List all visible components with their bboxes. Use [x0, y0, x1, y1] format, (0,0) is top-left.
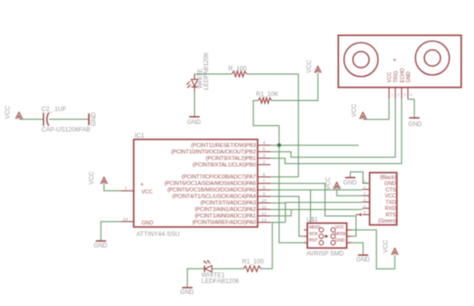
svg-text:VCC: VCC — [89, 171, 96, 185]
svg-text:3: 3 — [364, 192, 366, 196]
svg-text:6: 6 — [263, 172, 266, 177]
wire C2 to GND — [49, 118, 89, 120]
sonar right transducer — [415, 41, 449, 75]
svg-text:7: 7 — [263, 178, 266, 183]
IC1 pin 10 stub — [258, 202, 271, 204]
svg-text:RST: RST — [309, 237, 318, 242]
svg-text:10: 10 — [261, 198, 267, 203]
IC1 pin 2 stub — [258, 164, 271, 166]
sonar pin 1 stub — [388, 87, 390, 98]
svg-text:VCC: VCC — [385, 194, 396, 200]
svg-text:14: 14 — [123, 216, 129, 221]
svg-text:C2_.1UF: C2_.1UF — [42, 106, 67, 113]
wire PA7 row — [271, 176, 299, 178]
ground (ISP) — [358, 254, 368, 256]
connector U$1 AVRISP-SMD body — [307, 223, 346, 248]
wire ISP VCC to supply — [352, 230, 395, 269]
ISP pad circles — [319, 234, 323, 238]
FTDI pin 6 stub — [362, 214, 369, 216]
ISP left pin stub — [304, 242, 307, 244]
wire PA3 row — [271, 202, 286, 204]
wire FTDI GND to ground — [350, 172, 369, 183]
wire VCC to pin 1 — [104, 184, 121, 191]
supply VCC (sonar) — [360, 112, 367, 119]
svg-text:TXD: TXD — [385, 200, 396, 206]
svg-text:GND: GND — [180, 289, 194, 296]
IC1 pin 12 stub — [258, 215, 271, 217]
ISP right pin stub — [347, 235, 352, 237]
capacitor C2 — [43, 113, 45, 126]
svg-text:GND: GND — [142, 221, 154, 227]
sonar pin 3 stub — [401, 87, 403, 98]
svg-text:GND: GND — [343, 180, 357, 187]
wire PA2 row to FTDI RXD — [271, 209, 363, 211]
wire GND to LED WHITE1 — [187, 269, 204, 287]
svg-text:LEDFAB1206: LEDFAB1206 — [203, 52, 210, 90]
ISP pin1 mark — [325, 235, 328, 238]
IC1 pin 11 stub — [258, 208, 271, 210]
svg-text:12: 12 — [261, 211, 267, 216]
svg-text:GND: GND — [91, 112, 98, 126]
svg-text:(PCINT4/T1/SCL/USCK/ADC4)PA4: (PCINT4/T1/SCL/USCK/ADC4)PA4 — [172, 194, 256, 200]
svg-text:VCC: VCC — [142, 189, 153, 195]
wire LED to GND — [194, 91, 196, 116]
connector FTDI header body — [370, 173, 397, 225]
wire PA4 row to ISP SCK — [271, 196, 304, 236]
svg-text:(Green): (Green) — [378, 219, 396, 225]
IC1 pin 3 stub — [258, 157, 271, 159]
svg-text:(PCINT7/ICP/OC0B/ADC7)PA7: (PCINT7/ICP/OC0B/ADC7)PA7 — [182, 175, 256, 181]
ISP right pin stub — [347, 229, 352, 231]
resistor R1_10K — [258, 98, 271, 104]
svg-text:GND: GND — [94, 243, 108, 250]
svg-text:MOSI: MOSI — [335, 231, 346, 236]
svg-text:(Black): (Black) — [380, 175, 396, 181]
wire TRIG net — [271, 99, 396, 158]
LED WHITE (top) — [191, 79, 197, 86]
LED WHITE1 emission arrows — [204, 261, 207, 264]
ground (below LED) — [189, 116, 199, 118]
resistor R_100 — [232, 71, 247, 77]
svg-text:VCC: VCC — [383, 239, 390, 253]
IC IC1 ATTINY44-SSU body — [134, 139, 258, 227]
svg-text:(PCINT8/XTAL1/CLKI)PB0: (PCINT8/XTAL1/CLKI)PB0 — [193, 163, 256, 169]
svg-text:GND: GND — [406, 71, 412, 83]
ground (FTDI) — [345, 177, 355, 179]
FTDI pin 3 stub — [362, 195, 369, 197]
ISP right pin stub — [347, 242, 352, 244]
wire sonar VCC — [363, 99, 389, 120]
wire PA7 riser — [297, 74, 299, 177]
wire pin 14 to GND — [101, 222, 121, 241]
svg-text:2: 2 — [397, 93, 399, 97]
LED WHITE1 — [205, 266, 212, 273]
svg-text:1: 1 — [364, 179, 366, 183]
svg-text:1: 1 — [391, 93, 393, 97]
wire PA0 row — [271, 221, 286, 223]
svg-text:3: 3 — [263, 153, 266, 158]
svg-text:4: 4 — [410, 93, 412, 97]
FTDI pin 5 stub — [362, 207, 369, 209]
svg-text:2: 2 — [364, 185, 366, 189]
supply VCC (FTDI) — [333, 182, 340, 189]
svg-text:GND: GND — [187, 119, 201, 126]
FTDI pin 2 stub — [362, 188, 369, 190]
wire PA1 jog — [271, 210, 292, 216]
wire TXD net — [285, 202, 362, 222]
ISP left pin stub — [304, 235, 307, 237]
svg-text:VCC: VCC — [5, 105, 12, 119]
svg-text:VCC: VCC — [325, 176, 332, 190]
resistor R1_100 — [243, 266, 261, 272]
svg-text:13: 13 — [261, 217, 267, 222]
sonar pin 4 stub — [407, 87, 409, 98]
svg-text:4: 4 — [263, 140, 266, 145]
svg-text:8: 8 — [263, 185, 266, 190]
FTDI pin 1 stub — [362, 182, 369, 184]
wire PA5 row to FTDI CTS — [271, 189, 363, 191]
IC1 pin 7 stub — [258, 182, 271, 184]
svg-text:1: 1 — [125, 185, 128, 190]
ground (right of C2) — [88, 113, 90, 125]
IC1 pin 8 stub — [258, 189, 271, 191]
IC1 pin 14 stub — [121, 221, 134, 223]
wire LED to R1_100 — [212, 268, 244, 270]
svg-text:GND: GND — [384, 181, 396, 187]
supply VCC (IC left) — [101, 177, 108, 184]
svg-text:LEDFAB1206: LEDFAB1206 — [202, 278, 240, 285]
wire R1_10K to VCC — [272, 73, 318, 100]
wire ECHO net — [271, 99, 402, 164]
sonar module HC-SR04 body — [338, 35, 461, 87]
svg-text:GND: GND — [335, 237, 345, 242]
IC1 pin 6 stub — [258, 176, 271, 178]
svg-text:GND: GND — [356, 256, 370, 263]
wire MISO branch — [310, 190, 312, 223]
svg-text:R1_10K: R1_10K — [256, 91, 279, 98]
svg-text:(PCINT6/OC1A/SDA/MOSI/ADC6)PA6: (PCINT6/OC1A/SDA/MOSI/ADC6)PA6 — [164, 181, 255, 187]
wire sonar GND — [408, 99, 414, 118]
svg-text:CTS: CTS — [385, 187, 396, 193]
FTDI RTS open arrow — [358, 213, 361, 216]
ISP left pin stub — [304, 229, 307, 231]
svg-text:+: + — [140, 183, 144, 189]
svg-text:(PCINT2/AIN1/ADC2)PA2: (PCINT2/AIN1/ADC2)PA2 — [195, 207, 256, 213]
svg-text:VCC: VCC — [335, 225, 345, 230]
wire VCC to C2 — [19, 118, 43, 120]
wire VCC to FTDI — [337, 189, 363, 196]
svg-text:3: 3 — [404, 93, 406, 97]
wire PA6 row to ISP MOSI — [271, 183, 356, 236]
svg-text:(PCINT3/T0/ADC3)PA3: (PCINT3/T0/ADC3)PA3 — [200, 201, 256, 207]
svg-text:R1_100: R1_100 — [242, 259, 264, 266]
ground (sonar) — [409, 117, 419, 119]
svg-text:9: 9 — [263, 191, 266, 196]
sonar pin 2 stub — [394, 87, 396, 98]
svg-text:MISO: MISO — [309, 225, 321, 230]
svg-text:R_100: R_100 — [228, 65, 247, 72]
supply VCC (ISP) — [391, 248, 398, 255]
svg-text:11: 11 — [262, 204, 267, 209]
IC1 pin 1 stub — [121, 190, 134, 192]
svg-text:IC1: IC1 — [135, 133, 145, 140]
svg-text:6: 6 — [364, 211, 366, 215]
LED emission arrows — [187, 81, 190, 84]
svg-text:(PCINT11/RESET/DW)PB3: (PCINT11/RESET/DW)PB3 — [191, 143, 256, 149]
svg-text:RXD: RXD — [385, 206, 396, 212]
supply VCC (top) — [315, 66, 322, 73]
svg-text:GND: GND — [408, 121, 422, 128]
svg-text:(PCINT10/INT0/OC0A/CKOUT)PB2: (PCINT10/INT0/OC0A/CKOUT)PB2 — [171, 150, 256, 156]
svg-text:5: 5 — [263, 147, 266, 152]
svg-text:RTS: RTS — [386, 213, 397, 219]
sonar left transducer — [344, 43, 378, 77]
svg-text:5: 5 — [364, 204, 366, 208]
wire RESET to ISP RST — [279, 145, 304, 243]
svg-text:(PCINT1/AIN0/ADC1)PA1: (PCINT1/AIN0/ADC1)PA1 — [195, 214, 256, 220]
svg-text:(PCINT0/AREF/ADC0)PA0: (PCINT0/AREF/ADC0)PA0 — [192, 220, 256, 226]
wire R_100 to PA7 line — [247, 73, 299, 75]
supply VCC (left) — [16, 112, 23, 119]
ISP pad circles — [319, 228, 323, 232]
IC1 pin 13 stub — [258, 221, 271, 223]
ground (bottom LED) — [182, 287, 192, 289]
svg-text:+: + — [393, 58, 397, 64]
svg-text:U$1: U$1 — [307, 216, 319, 223]
wire ISP GND to ground — [352, 243, 363, 255]
IC1 pin 5 stub — [258, 151, 271, 153]
ISP pad circles — [319, 241, 323, 245]
svg-text:CAP-US1206FAB: CAP-US1206FAB — [42, 127, 91, 134]
IC1 pin 9 stub — [258, 195, 271, 197]
svg-text:(PCINT5/OC1B/MISO/DO/ADC5)PA5: (PCINT5/OC1B/MISO/DO/ADC5)PA5 — [167, 188, 256, 194]
wire RESET net row — [271, 144, 359, 146]
FTDI pin 4 stub — [362, 201, 369, 203]
svg-text:TRIG: TRIG — [394, 71, 400, 83]
svg-text:4: 4 — [364, 198, 366, 202]
svg-text:VCC: VCC — [351, 103, 358, 117]
svg-text:VCC: VCC — [387, 72, 393, 83]
wire LED to R_100 — [195, 73, 232, 75]
svg-text:AVRISP SMD: AVRISP SMD — [306, 250, 344, 257]
svg-text:VCC: VCC — [306, 59, 313, 73]
wire PA0 to R1_100 — [261, 222, 272, 268]
svg-text:ECHO: ECHO — [400, 68, 406, 83]
svg-text:2: 2 — [263, 160, 266, 165]
ground (IC pin 14) — [96, 240, 106, 242]
svg-text:(PCINT9/XTAL2)PB1: (PCINT9/XTAL2)PB1 — [206, 156, 256, 162]
IC1 pin 4 stub — [258, 144, 271, 146]
svg-text:SCK: SCK — [309, 231, 319, 236]
junction RESET node — [277, 143, 281, 147]
wire R1_10K to RESET — [253, 101, 279, 145]
svg-text:ATTINY44-SSU: ATTINY44-SSU — [136, 231, 179, 238]
